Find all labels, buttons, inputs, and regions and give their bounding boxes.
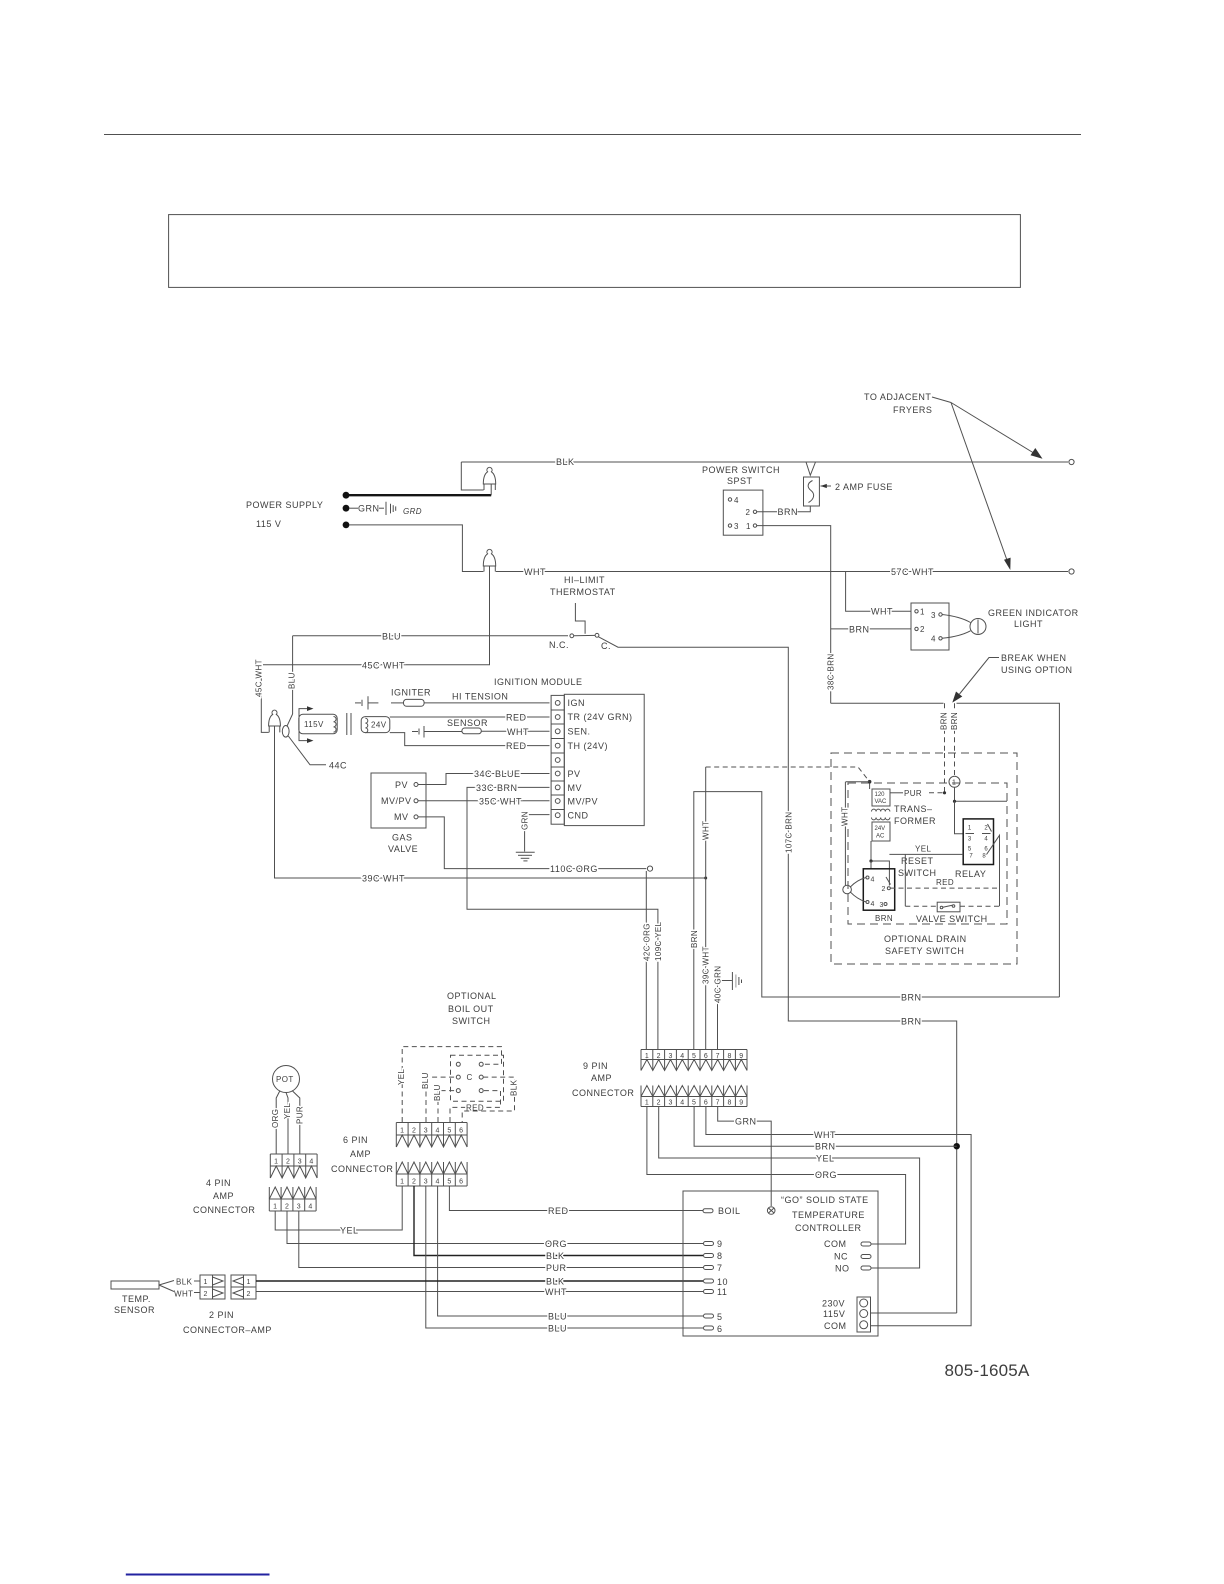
svg-text:BRN: BRN <box>901 993 922 1003</box>
svg-text:6: 6 <box>459 1128 463 1135</box>
svg-text:RESET: RESET <box>901 856 934 866</box>
svg-text:4 PIN: 4 PIN <box>206 1178 231 1188</box>
wire WHT drop to reset lamp <box>844 782 846 886</box>
wire YEL to relay 7 <box>889 853 963 855</box>
svg-text:4: 4 <box>984 837 988 843</box>
svg-text:BLK: BLK <box>546 1277 565 1287</box>
svg-text:1: 1 <box>645 1053 649 1060</box>
svg-text:WHT: WHT <box>524 567 546 577</box>
svg-text:CONTROLLER: CONTROLLER <box>795 1223 862 1233</box>
svg-text:GRN: GRN <box>521 811 530 830</box>
wire ORG pot to 4pin1 <box>276 1091 280 1155</box>
svg-text:PV: PV <box>395 780 408 790</box>
ground GRD symbol <box>349 507 358 509</box>
svg-text:BRN: BRN <box>950 712 959 730</box>
svg-text:2: 2 <box>984 826 988 832</box>
wire BLK hot from supply (thick) <box>349 494 491 496</box>
wire RED to TR <box>390 716 550 718</box>
svg-text:5: 5 <box>447 1128 451 1135</box>
svg-text:9: 9 <box>717 1239 723 1249</box>
svg-text:BRN: BRN <box>690 930 699 948</box>
svg-text:TR (24V GRN): TR (24V GRN) <box>568 712 633 722</box>
6 pin AMP connector lower half <box>396 1162 467 1186</box>
controller pin 6 <box>704 1326 714 1330</box>
svg-text:SENSOR: SENSOR <box>114 1305 155 1315</box>
svg-text:4: 4 <box>871 901 875 908</box>
wire to valve switch <box>904 854 906 906</box>
svg-text:ORG: ORG <box>271 1109 280 1128</box>
svg-text:CONNECTOR: CONNECTOR <box>331 1164 393 1174</box>
wire WHT to indicator <box>846 572 911 612</box>
svg-text:BLU: BLU <box>288 672 297 689</box>
svg-text:LIGHT: LIGHT <box>1014 619 1043 629</box>
svg-text:1: 1 <box>274 1159 278 1166</box>
svg-text:OPTIONAL: OPTIONAL <box>447 991 497 1001</box>
footer link line <box>126 1574 270 1576</box>
wire 39C WHT <box>275 726 706 878</box>
svg-text:PUR: PUR <box>904 789 922 798</box>
svg-text:110C ORG: 110C ORG <box>550 864 598 874</box>
9 pin AMP connector lower half <box>641 1086 747 1107</box>
svg-text:115V: 115V <box>304 720 324 729</box>
wire 42C ORG to 9-pin 1 <box>645 871 647 1049</box>
svg-text:BRN: BRN <box>815 1142 836 1152</box>
wire BRN switch pin2 to fuse <box>757 511 777 513</box>
node BRN junction dot <box>954 1143 960 1149</box>
svg-text:24V: 24V <box>875 826 886 832</box>
wire WHT / 57C WHT run <box>496 571 1068 573</box>
svg-text:5: 5 <box>692 1100 696 1107</box>
svg-text:2: 2 <box>920 625 925 634</box>
wire BLK 6pin2 to ctrl 8 <box>414 1186 703 1256</box>
svg-text:1: 1 <box>746 522 751 531</box>
svg-text:4: 4 <box>309 1159 313 1166</box>
svg-text:1: 1 <box>968 826 972 832</box>
svg-text:2: 2 <box>412 1179 416 1186</box>
wire BRN lower run to 9-pin 5 <box>694 792 1060 1049</box>
svg-text:WHT: WHT <box>841 807 850 826</box>
svg-text:TEMP.: TEMP. <box>122 1294 151 1304</box>
optional drain safety switch outer dashed box <box>831 753 1017 964</box>
svg-text:BLK: BLK <box>510 1079 519 1096</box>
svg-text:BLU: BLU <box>382 631 401 641</box>
dashed wire RED <box>450 1091 501 1122</box>
svg-text:45C WHT: 45C WHT <box>362 660 405 670</box>
svg-text:1: 1 <box>645 1100 649 1107</box>
svg-text:GRN: GRN <box>735 1117 757 1127</box>
node: adjacent fryer tap (WHT) <box>1069 569 1074 574</box>
svg-text:YEL: YEL <box>915 845 931 854</box>
svg-text:MV/PV: MV/PV <box>568 797 599 807</box>
svg-text:3: 3 <box>298 1159 302 1166</box>
svg-text:7: 7 <box>716 1100 720 1107</box>
wire BLU to thermostat <box>293 635 568 637</box>
controller pin 9 <box>704 1242 714 1246</box>
svg-text:AMP: AMP <box>350 1149 371 1159</box>
svg-text:YEL: YEL <box>340 1226 359 1236</box>
transformer T1 115V/24V <box>299 709 308 724</box>
reset lamp <box>843 885 852 894</box>
svg-text:7: 7 <box>716 1053 720 1060</box>
svg-text:38C BRN: 38C BRN <box>827 653 836 690</box>
svg-text:YEL: YEL <box>283 1103 292 1119</box>
svg-text:42C ORG: 42C ORG <box>642 923 651 961</box>
arrow to 57C WHT run <box>951 403 1008 564</box>
svg-text:1: 1 <box>400 1179 404 1186</box>
svg-text:4: 4 <box>680 1100 684 1107</box>
boil out switch dashed box <box>451 1055 504 1101</box>
svg-text:MV: MV <box>394 812 409 822</box>
svg-text:SEN.: SEN. <box>568 727 591 737</box>
svg-text:4: 4 <box>436 1128 440 1135</box>
svg-text:POWER SWITCH: POWER SWITCH <box>702 465 780 475</box>
wire YEL pot to 4pin2 <box>286 1093 288 1155</box>
wire GRN 9pin7 to controller earth <box>718 1107 772 1207</box>
4 pin AMP connector lower half <box>269 1187 316 1211</box>
svg-text:BLU: BLU <box>421 1072 430 1089</box>
wire WHT / 39C WHT vertical to 9-pin 6 <box>706 767 870 782</box>
svg-text:6: 6 <box>704 1053 708 1060</box>
svg-text:YEL: YEL <box>397 1069 406 1085</box>
wire secondary to reset switch <box>871 841 889 886</box>
svg-text:3: 3 <box>931 611 936 620</box>
svg-text:HI TENSION: HI TENSION <box>452 692 508 702</box>
svg-text:1: 1 <box>400 1128 404 1135</box>
svg-text:7: 7 <box>717 1263 723 1273</box>
arrow to BLK run <box>951 403 1037 456</box>
potentiometer POT <box>273 1066 300 1093</box>
svg-text:1: 1 <box>204 1279 208 1286</box>
wire RED 6pin5 to BOIL <box>449 1186 703 1211</box>
svg-text:39C WHT: 39C WHT <box>362 874 405 884</box>
svg-text:SPST: SPST <box>727 476 753 486</box>
svg-text:BLU: BLU <box>548 1312 567 1322</box>
svg-text:GREEN INDICATOR: GREEN INDICATOR <box>988 608 1079 618</box>
svg-text:WHT: WHT <box>702 821 711 840</box>
green indicator light <box>911 603 949 650</box>
svg-text:115 V: 115 V <box>256 519 281 529</box>
svg-text:WHT: WHT <box>507 727 529 737</box>
wire 34C BLUE PV <box>418 774 550 785</box>
svg-text:PUR: PUR <box>546 1263 567 1273</box>
temperature controller box <box>683 1191 878 1336</box>
svg-text:2: 2 <box>657 1053 661 1060</box>
svg-text:1: 1 <box>247 1279 251 1286</box>
controller power terminal block <box>857 1297 871 1332</box>
wire relay feed <box>955 787 1008 801</box>
svg-text:POWER SUPPLY: POWER SUPPLY <box>246 500 323 510</box>
dashed wire YEL boil-out <box>402 1047 501 1122</box>
svg-text:WHT: WHT <box>174 1290 193 1299</box>
svg-text:RED: RED <box>548 1206 569 1216</box>
svg-text:NC: NC <box>834 1252 848 1262</box>
wire 40C GRN to ground <box>718 981 732 1050</box>
wire BRN to indicator <box>831 628 911 630</box>
wire BLK top run <box>461 461 1068 463</box>
wire WHT neutral from supply <box>349 525 483 572</box>
svg-text:BRN: BRN <box>901 1017 922 1027</box>
svg-text:N.C.: N.C. <box>549 640 569 650</box>
svg-text:RED: RED <box>936 878 954 887</box>
svg-text:7: 7 <box>969 854 973 860</box>
6 pin AMP connector upper half <box>396 1123 467 1148</box>
svg-text:10: 10 <box>717 1277 728 1287</box>
wire PUR pot to 4pin3 <box>292 1091 300 1155</box>
svg-text:3: 3 <box>668 1053 672 1060</box>
controller pin BOIL <box>703 1209 713 1213</box>
svg-text:WHT: WHT <box>814 1130 836 1140</box>
svg-text:BREAK WHEN: BREAK WHEN <box>1001 653 1067 663</box>
svg-text:AMP: AMP <box>591 1073 612 1083</box>
controller pin 7 <box>704 1266 714 1270</box>
wire BRN stub into option box (right) <box>954 703 956 753</box>
power supply terminal dots <box>343 492 350 499</box>
wire 38C BRN: switch pin1 down <box>757 526 831 704</box>
9 pin AMP connector upper half <box>641 1050 747 1071</box>
svg-text:45C WHT: 45C WHT <box>255 659 264 697</box>
svg-text:BLU: BLU <box>548 1324 567 1334</box>
igniter assembly <box>355 702 361 704</box>
svg-text:TEMPERATURE: TEMPERATURE <box>792 1210 865 1220</box>
wire 110C ORG from MV <box>418 817 646 869</box>
svg-text:ORG: ORG <box>545 1239 567 1249</box>
svg-text:4: 4 <box>436 1179 440 1186</box>
svg-text:NO: NO <box>835 1264 850 1274</box>
svg-text:CND: CND <box>568 811 589 821</box>
dashed wire BLU to C <box>426 1077 456 1122</box>
wire top of option loop (broken) <box>831 702 944 704</box>
svg-text:2: 2 <box>882 886 886 893</box>
svg-text:BLK: BLK <box>546 1251 565 1261</box>
svg-text:PUR: PUR <box>296 1106 305 1124</box>
svg-text:USING OPTION: USING OPTION <box>1001 665 1073 675</box>
svg-text:TRANS–: TRANS– <box>894 804 933 814</box>
svg-text:6: 6 <box>459 1179 463 1186</box>
svg-text:4: 4 <box>308 1204 312 1211</box>
svg-text:6: 6 <box>717 1324 723 1334</box>
svg-text:AMP: AMP <box>213 1191 234 1201</box>
svg-text:RED: RED <box>506 741 527 751</box>
plug disconnect P2 <box>483 549 495 566</box>
svg-text:BRN: BRN <box>778 507 799 517</box>
svg-text:MV/PV: MV/PV <box>381 796 412 806</box>
svg-text:SWITCH: SWITCH <box>898 868 937 878</box>
valve switch S3 <box>937 902 960 912</box>
svg-text:35C WHT: 35C WHT <box>479 796 522 806</box>
svg-text:BLU: BLU <box>433 1084 442 1101</box>
svg-text:BRN: BRN <box>849 625 870 635</box>
svg-text:6: 6 <box>704 1100 708 1107</box>
svg-text:8: 8 <box>727 1053 731 1060</box>
svg-text:IGN: IGN <box>568 698 586 708</box>
svg-text:115V: 115V <box>823 1309 845 1319</box>
svg-text:POT: POT <box>276 1075 294 1084</box>
svg-text:CONNECTOR: CONNECTOR <box>193 1205 255 1215</box>
svg-text:2: 2 <box>412 1128 416 1135</box>
controller pin 8 <box>704 1254 714 1258</box>
wire YEL 9pin2 to controller NO <box>659 1107 920 1269</box>
svg-text:2: 2 <box>746 508 751 517</box>
svg-text:FRYERS: FRYERS <box>893 405 932 415</box>
wire ORG 9pin1 to controller COM pin <box>647 1107 906 1245</box>
module pins <box>555 701 560 706</box>
svg-text:5: 5 <box>717 1312 723 1322</box>
wire BLK sensor to ctrl 10 <box>194 1280 200 1282</box>
header rule <box>104 134 1081 136</box>
svg-text:C: C <box>467 1073 473 1082</box>
wire YEL 4pin1 to 6pin1 <box>275 1186 402 1230</box>
inner dashed box <box>848 783 1007 924</box>
svg-text:GRN: GRN <box>358 504 380 514</box>
svg-text:2 PIN: 2 PIN <box>209 1310 234 1320</box>
svg-text:9 PIN: 9 PIN <box>583 1061 608 1071</box>
wire WHT 9pin6 to controller COM <box>706 1107 971 1326</box>
svg-text:1: 1 <box>920 608 925 617</box>
dashed wire BLK <box>462 1077 514 1122</box>
ground at module CND <box>525 815 550 852</box>
svg-text:39C WHT: 39C WHT <box>702 946 711 984</box>
4 pin AMP connector upper half <box>270 1154 317 1178</box>
svg-text:2: 2 <box>657 1100 661 1107</box>
svg-text:BRN: BRN <box>940 712 949 730</box>
svg-text:VALVE: VALVE <box>388 844 418 854</box>
svg-text:SENSOR: SENSOR <box>447 718 488 728</box>
svg-text:4: 4 <box>680 1053 684 1060</box>
svg-text:BLK: BLK <box>556 457 575 467</box>
svg-text:RED: RED <box>506 713 527 723</box>
svg-text:3: 3 <box>424 1128 428 1135</box>
node: adjacent fryer tap (BLK) <box>1069 459 1074 464</box>
wire PUR primary to BRN stub <box>890 792 903 794</box>
svg-text:40C GRN: 40C GRN <box>714 966 723 1003</box>
svg-text:COM: COM <box>824 1239 847 1249</box>
svg-text:TO ADJACENT: TO ADJACENT <box>864 392 931 402</box>
svg-text:BOIL: BOIL <box>718 1206 741 1216</box>
dashed wire BLU lower <box>438 1091 456 1122</box>
svg-text:1: 1 <box>273 1204 277 1211</box>
wire ORG 4pin2 to ctrl 9 <box>287 1211 703 1244</box>
wire 115V terminal to BRN junction <box>871 1312 957 1314</box>
svg-text:3: 3 <box>297 1204 301 1211</box>
svg-text:THERMOSTAT: THERMOSTAT <box>550 587 616 597</box>
svg-text:6 PIN: 6 PIN <box>343 1135 368 1145</box>
svg-text:57C WHT: 57C WHT <box>891 567 934 577</box>
wire 33C BRN / 109C YEL to 9-pin 2 <box>467 787 658 1049</box>
svg-text:“GO” SOLID STATE: “GO” SOLID STATE <box>781 1195 869 1205</box>
svg-text:9: 9 <box>739 1053 743 1060</box>
lamp circle 1 <box>954 753 956 776</box>
wire valve switch to relay 8 <box>960 905 1000 907</box>
svg-text:WHT: WHT <box>871 607 893 617</box>
svg-text:3: 3 <box>968 837 972 843</box>
svg-text:COM: COM <box>824 1321 847 1331</box>
svg-text:YEL: YEL <box>816 1154 835 1164</box>
svg-text:5: 5 <box>447 1179 451 1186</box>
svg-text:SAFETY SWITCH: SAFETY SWITCH <box>885 946 964 956</box>
svg-text:RELAY: RELAY <box>955 869 986 879</box>
controller earth terminal <box>767 1207 775 1215</box>
svg-text:SWITCH: SWITCH <box>452 1016 491 1026</box>
gas valve <box>371 773 426 828</box>
svg-text:5: 5 <box>968 847 972 853</box>
relay K1 <box>963 819 993 865</box>
wire RED to TH <box>390 733 550 746</box>
plug disconnect P3 <box>269 710 281 726</box>
wire WHT sensor to ctrl 11 <box>194 1292 200 1294</box>
svg-text:TH (24V): TH (24V) <box>568 741 609 751</box>
svg-text:8: 8 <box>727 1100 731 1107</box>
svg-text:4: 4 <box>734 496 739 505</box>
notice box <box>169 215 1021 288</box>
svg-text:GRD: GRD <box>403 507 422 516</box>
svg-text:3: 3 <box>668 1100 672 1107</box>
svg-text:2: 2 <box>204 1291 208 1298</box>
svg-text:3: 3 <box>880 902 884 909</box>
svg-text:230V: 230V <box>822 1299 845 1309</box>
svg-text:109C YEL: 109C YEL <box>654 921 663 961</box>
svg-text:6: 6 <box>984 847 988 853</box>
svg-text:8: 8 <box>982 854 986 860</box>
plug disconnect P1 <box>461 462 483 490</box>
svg-text:4: 4 <box>871 877 875 884</box>
wire BLU 6pin3 to ctrl 6 <box>426 1186 703 1328</box>
svg-text:5: 5 <box>692 1053 696 1060</box>
node 110C ORG receptacle <box>647 866 652 871</box>
svg-text:805-1605A: 805-1605A <box>945 1361 1030 1380</box>
controller pin 5 <box>704 1314 714 1318</box>
wire 45C WHT <box>489 566 491 572</box>
wire PUR 4pin3 to ctrl 7 <box>299 1211 703 1268</box>
svg-text:FORMER: FORMER <box>894 816 936 826</box>
svg-text:33C BRN: 33C BRN <box>476 783 518 793</box>
svg-text:2: 2 <box>286 1159 290 1166</box>
svg-text:2: 2 <box>285 1204 289 1211</box>
svg-text:CONNECTOR: CONNECTOR <box>572 1088 634 1098</box>
svg-text:107C BRN: 107C BRN <box>784 812 793 853</box>
svg-text:AC: AC <box>876 834 885 840</box>
svg-text:BRN: BRN <box>875 914 893 923</box>
svg-text:OPTIONAL DRAIN: OPTIONAL DRAIN <box>884 934 967 944</box>
wire BRN stub into option box (left) <box>944 703 946 753</box>
temp sensor probe <box>111 1281 159 1289</box>
sensor assembly <box>412 731 418 733</box>
controller pin 10 <box>704 1279 714 1283</box>
controller pin 11 <box>704 1290 714 1294</box>
svg-text:VAC: VAC <box>875 799 888 805</box>
wire BLU 6pin4 to ctrl 5 <box>438 1186 703 1316</box>
fuse F1 2 AMP <box>806 462 816 475</box>
svg-text:WHT: WHT <box>545 1287 567 1297</box>
svg-text:1: 1 <box>952 780 956 787</box>
svg-text:MV: MV <box>568 783 583 793</box>
wire 35C WHT MV/PV <box>418 800 550 802</box>
svg-text:11: 11 <box>717 1287 727 1297</box>
svg-text:2: 2 <box>247 1291 251 1298</box>
svg-text:HI–LIMIT: HI–LIMIT <box>564 575 605 585</box>
wire primary to junction dot <box>869 782 871 789</box>
svg-text:24V: 24V <box>371 721 387 730</box>
wire 107C BRN from thermostat C <box>599 637 957 1313</box>
svg-text:CONNECTOR–AMP: CONNECTOR–AMP <box>183 1325 272 1335</box>
svg-text:VALVE SWITCH: VALVE SWITCH <box>916 914 988 924</box>
svg-text:3: 3 <box>424 1179 428 1186</box>
svg-text:BLK: BLK <box>176 1278 193 1287</box>
wire RED reset to relay 8 <box>890 887 1000 889</box>
svg-text:BOIL OUT: BOIL OUT <box>448 1004 494 1014</box>
svg-text:34C BLUE: 34C BLUE <box>474 769 521 779</box>
connector 44C oval <box>292 636 294 714</box>
svg-text:ORG: ORG <box>815 1170 837 1180</box>
